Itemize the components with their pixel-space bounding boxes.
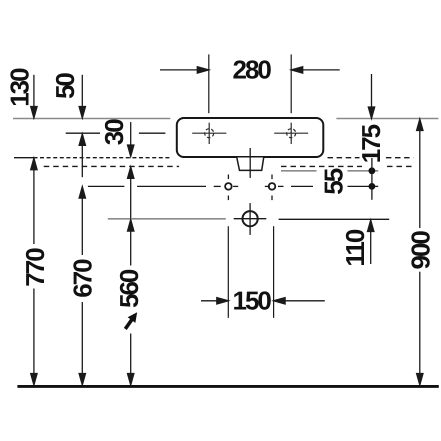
dot terminator lower bbox=[369, 183, 376, 190]
dimension 130 down arrow bbox=[31, 75, 37, 118]
dimension 150 right arrow bbox=[274, 298, 325, 304]
dashed hidden line 1 right b bbox=[386, 157, 414, 159]
chain 130/770 up arrow at dashed line bbox=[31, 158, 37, 385]
drain centerline vertical bbox=[249, 148, 251, 178]
drain level gray line left bbox=[108, 218, 226, 220]
gray 55 level line segment b bbox=[348, 170, 379, 172]
faucet level reference line left segment b bbox=[139, 132, 166, 134]
dimension 50 down arrow bbox=[79, 75, 85, 118]
svg-text:900: 900 bbox=[406, 231, 436, 270]
holes level reference line segment d with dot bbox=[348, 185, 379, 187]
dashed hidden line 1 left bbox=[40, 157, 171, 159]
dashed hidden line 1 right a bbox=[328, 157, 360, 159]
dimension 280 right arrow bbox=[291, 67, 340, 73]
adjustable height arrow symbol bbox=[125, 313, 136, 329]
svg-text:280: 280 bbox=[233, 55, 272, 85]
holes level reference line segment b bbox=[137, 185, 206, 187]
small hole right bbox=[265, 175, 284, 201]
wire rim reference line left (gray) bbox=[13, 118, 170, 120]
svg-text:150: 150 bbox=[233, 286, 272, 316]
dimension 30 down arrow bbox=[128, 122, 134, 156]
gray 55 level line segment a bbox=[281, 170, 317, 172]
svg-text:175: 175 bbox=[356, 124, 386, 163]
dashed hidden line 2 left bbox=[44, 165, 179, 167]
svg-text:50: 50 bbox=[50, 73, 80, 99]
floor line bbox=[17, 385, 438, 388]
dimension 280 left arrow bbox=[160, 67, 209, 73]
dashed hidden line 2 right bbox=[281, 165, 362, 167]
dimension 175 down arrow bbox=[368, 74, 374, 119]
150 extension line left bbox=[227, 226, 229, 318]
150 extension line right bbox=[273, 226, 275, 318]
chain 50/670 arrows bbox=[79, 134, 85, 385]
svg-text:30: 30 bbox=[99, 119, 129, 145]
dimension 110 up arrow bbox=[368, 220, 374, 264]
svg-text:670: 670 bbox=[68, 259, 98, 298]
dots vertical line bbox=[371, 158, 373, 200]
drain level black line right bbox=[279, 218, 390, 220]
drain large circle bbox=[234, 203, 267, 235]
small hole left bbox=[214, 175, 239, 201]
faucet hole right crosshair bbox=[274, 123, 308, 144]
280 extension line right bbox=[290, 54, 292, 113]
svg-text:770: 770 bbox=[20, 248, 50, 287]
svg-text:110: 110 bbox=[340, 229, 370, 266]
drain trapezoid bbox=[237, 158, 264, 171]
chain 30/560 arrows bbox=[128, 167, 134, 385]
dot terminator upper bbox=[369, 167, 376, 174]
280 extension line left bbox=[208, 54, 210, 113]
dimension 150 left arrow bbox=[201, 298, 228, 304]
svg-text:130: 130 bbox=[5, 68, 35, 107]
svg-text:55: 55 bbox=[319, 168, 349, 194]
dashed hidden line 1 solid start bbox=[14, 157, 38, 159]
dimension 900 line with arrows bbox=[417, 119, 423, 385]
svg-text:560: 560 bbox=[114, 269, 144, 308]
basin outline bbox=[177, 118, 323, 157]
holes level reference line segment c bbox=[291, 185, 313, 187]
faucet hole left crosshair bbox=[192, 123, 226, 144]
faucet level reference line left segment a bbox=[66, 132, 100, 134]
holes level reference line segment a bbox=[88, 185, 125, 187]
wire rim reference line right (gray) bbox=[336, 118, 438, 120]
